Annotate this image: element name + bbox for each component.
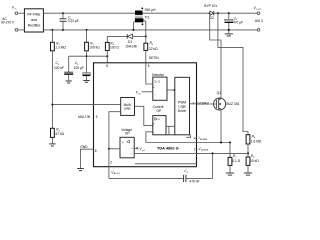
- svg-text:0.22 µF: 0.22 µF: [68, 19, 79, 23]
- svg-text:OP: OP: [157, 109, 162, 113]
- svg-text:6: 6: [95, 149, 97, 153]
- svg-text:100 µF: 100 µF: [74, 66, 84, 70]
- svg-text:Q1: Q1: [217, 91, 222, 95]
- svg-text:5: 5: [148, 64, 150, 68]
- svg-text:470 nF: 470 nF: [189, 179, 199, 183]
- svg-text:OUT: OUT: [256, 9, 261, 11]
- svg-text:67 kΩ: 67 kΩ: [56, 132, 65, 136]
- svg-text:DETIN: DETIN: [149, 56, 159, 60]
- svg-text:100 nF: 100 nF: [54, 66, 64, 70]
- svg-text:MULTIN: MULTIN: [78, 115, 91, 119]
- svg-text:1.3 MΩ: 1.3 MΩ: [55, 45, 66, 49]
- svg-text:SENSE: SENSE: [201, 150, 209, 152]
- svg-text:250 µH: 250 µH: [145, 8, 157, 12]
- svg-text:Tr1: Tr1: [145, 15, 150, 19]
- svg-text:22 kΩ: 22 kΩ: [149, 47, 158, 51]
- svg-text:AOUT: AOUT: [114, 172, 121, 175]
- svg-text:Driver: Driver: [178, 109, 188, 113]
- svg-text:100 Ω: 100 Ω: [110, 46, 119, 50]
- svg-text:100 kΩ: 100 kΩ: [89, 45, 100, 49]
- svg-text:∞: ∞: [158, 118, 160, 121]
- svg-text:10 kΩ: 10 kΩ: [250, 159, 259, 163]
- svg-text:3: 3: [96, 115, 98, 119]
- svg-text:and: and: [31, 18, 37, 22]
- svg-text:7: 7: [192, 101, 194, 105]
- svg-text:Σ+.Σ: Σ+.Σ: [154, 80, 160, 84]
- svg-text:SENSE: SENSE: [200, 139, 208, 141]
- svg-text:BUZ 334: BUZ 334: [227, 102, 240, 106]
- svg-text:Detector: Detector: [152, 73, 165, 77]
- svg-text:8: 8: [106, 64, 108, 68]
- svg-text:470 µF: 470 µF: [233, 21, 243, 25]
- svg-text:2: 2: [110, 161, 112, 165]
- svg-text:GTDRV: GTDRV: [197, 101, 209, 105]
- svg-text:GND: GND: [80, 145, 88, 149]
- svg-text:plier: plier: [125, 106, 132, 110]
- svg-text:4: 4: [194, 137, 196, 141]
- svg-text:TDA 4862 G: TDA 4862 G: [157, 146, 179, 151]
- svg-text:Rectifier: Rectifier: [28, 23, 41, 27]
- svg-text:400 V: 400 V: [255, 19, 264, 23]
- svg-text:D1: D1: [128, 40, 132, 44]
- svg-text:D2: D2: [210, 16, 214, 20]
- svg-text:RF-Filter: RF-Filter: [27, 13, 41, 17]
- svg-text:90-270 V: 90-270 V: [1, 21, 15, 25]
- svg-text:1N4148: 1N4148: [125, 44, 137, 48]
- svg-text:BYP 101: BYP 101: [204, 4, 217, 8]
- svg-text:1.6 MΩ: 1.6 MΩ: [251, 139, 262, 143]
- svg-text:0.1 Ω: 0.1 Ω: [232, 159, 240, 163]
- svg-text:1: 1: [194, 147, 196, 151]
- svg-text:OP: OP: [125, 132, 130, 136]
- svg-text:ref: ref: [142, 149, 145, 152]
- svg-text:∞: ∞: [122, 141, 124, 144]
